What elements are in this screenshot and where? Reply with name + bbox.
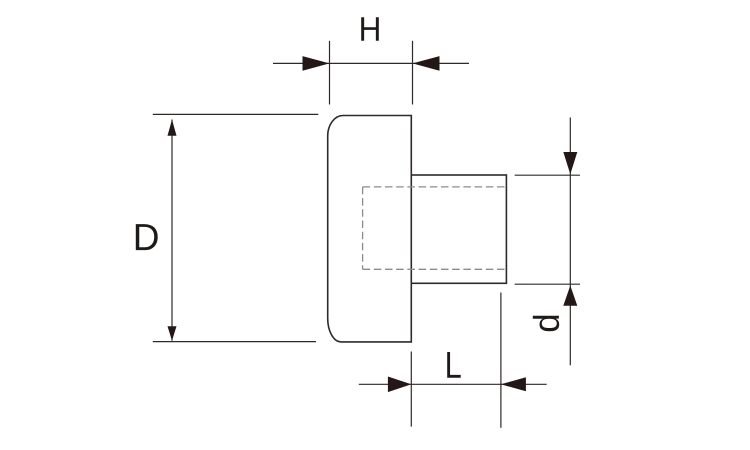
dimension d dimension line [569,118,571,366]
dimension L left arrowhead [388,377,411,393]
dimension L right arrowhead [501,377,526,391]
dimension H dimension line [273,62,469,64]
knob head outline [328,116,412,342]
dimension H label [361,17,379,41]
dimension H extension line right [412,41,414,105]
dimension L extension line left [410,352,412,427]
hidden insert dashed top line [363,186,507,188]
shaft outline [411,175,506,283]
dimension D top arrowhead [168,120,177,136]
dimension D label [136,224,158,250]
dimension d bottom arrowhead [563,286,577,306]
hidden insert dashed left line [362,187,364,269]
dimension H left arrowhead [303,56,330,71]
hidden insert dashed bottom line [363,268,507,270]
dimension H right arrowhead [413,56,440,71]
dimension D dimension line [171,120,173,341]
dimension L dimension line [359,383,547,385]
dimension H extension line left [329,41,331,105]
dimension d extension line top [515,174,580,176]
dimension L extension line right [500,293,502,428]
dimension d extension line bottom [515,283,580,285]
dimension L label [447,352,461,378]
dimension D extension line top [153,113,318,115]
dimension D extension line bottom [153,341,316,343]
dimension D bottom arrowhead [168,326,177,340]
dimension d top arrowhead [563,152,577,174]
dimension d label (rotated) [533,316,559,332]
